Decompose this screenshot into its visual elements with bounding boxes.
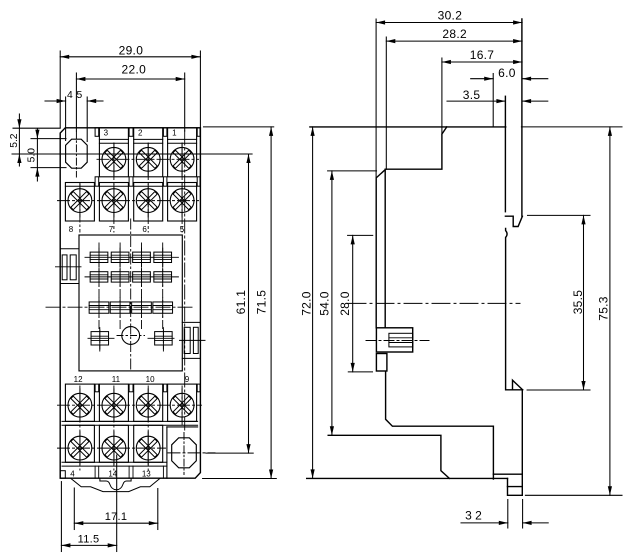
dim 22.0 (76, 63, 184, 81)
svg-text:7: 7 (109, 225, 114, 234)
dim 72.0 (299, 127, 314, 479)
row4 blocks (4,14,13) (65, 425, 94, 462)
relay well inner rectangle (79, 235, 182, 371)
svg-text:28.2: 28.2 (442, 27, 467, 41)
svg-text:17.1: 17.1 (105, 511, 128, 523)
svg-text:4: 4 (70, 470, 75, 479)
base strip gap ticks (94, 466, 96, 478)
contact slot rowB (111, 268, 129, 286)
svg-text:22.0: 22.0 (122, 63, 147, 77)
dim 6.0 (492, 74, 494, 127)
dim 29.0 (60, 43, 200, 59)
bottom shared line (307, 477, 508, 479)
contact slot rowC (89, 298, 109, 317)
dim 11.5 (61, 533, 116, 547)
dim 17.1 (73, 488, 75, 530)
mid centre line (46, 306, 194, 308)
screw terminal 5 (170, 184, 194, 217)
screw terminal 13 (136, 432, 160, 465)
svg-text:13: 13 (142, 470, 151, 479)
screw terminal 2 (136, 143, 160, 176)
contact slot rowA (111, 248, 129, 266)
side view centre line (348, 302, 520, 304)
svg-text:35.5: 35.5 (571, 290, 585, 315)
bottom mounting hole (obround) (172, 438, 197, 468)
dim 5.0 (36, 129, 38, 182)
contact slot rowA (133, 248, 151, 266)
dim 28.2 ext (385, 37, 387, 169)
left corner box (60, 471, 65, 479)
svg-text:6.0: 6.0 (498, 66, 516, 80)
clip hook (505, 216, 522, 226)
screw terminal 9 (170, 389, 194, 422)
dim 17.1 (74, 511, 158, 525)
svg-text:9: 9 (185, 375, 190, 384)
screw terminal 11 (102, 389, 126, 422)
dim 75.3 ext (525, 494, 622, 496)
terminal row 2 blocks (8,7,6,5) (65, 183, 94, 222)
bottom scallop inner notch (100, 478, 131, 490)
dim 4.5 (65, 97, 67, 141)
side screw centre line (366, 340, 429, 342)
dim 3.5 (447, 100, 505, 102)
svg-text:5.2: 5.2 (9, 133, 20, 148)
terminal row3 blocks (12,11,10,9) (65, 384, 94, 421)
dim 5.2 (18, 114, 20, 166)
svg-text:4: 4 (67, 90, 73, 101)
svg-text:5: 5 (77, 90, 83, 101)
dim 71.5 (204, 126, 274, 128)
dim 54.0 ext (328, 170, 377, 172)
dim 71.5 (255, 127, 274, 479)
left latch pocket (60, 248, 79, 250)
slot column centre lines (98, 243, 100, 330)
contact slot rowB (133, 268, 151, 286)
svg-text:3: 3 (104, 128, 109, 137)
svg-text:75.3: 75.3 (597, 296, 611, 321)
contact slot rowD left (91, 328, 109, 349)
small step rect below block (376, 354, 387, 372)
dim 30.2 ext (375, 19, 377, 178)
dim 16.7 (442, 48, 522, 64)
svg-text:11: 11 (112, 375, 121, 384)
svg-text:5.0: 5.0 (27, 148, 38, 163)
svg-text:1: 1 (172, 128, 177, 137)
bottom hole vertical centre line (183, 433, 185, 475)
dim 29.0 extension lines (59, 51, 61, 128)
screw terminal 3 (102, 143, 126, 176)
dim 61.1 (234, 154, 251, 453)
dim 28.0 ext (348, 234, 373, 236)
svg-text:3 2: 3 2 (465, 508, 482, 522)
latch centre line right (180, 339, 206, 341)
svg-text:10: 10 (146, 375, 155, 384)
screw terminal 10 (136, 389, 160, 422)
dim 3.2 (507, 500, 509, 529)
contact slot rowB (154, 268, 172, 286)
screw terminal 14 (102, 432, 126, 465)
dim 22.0 extension lines (75, 73, 77, 131)
contact slot rowC (110, 298, 130, 317)
catch bump (506, 229, 523, 390)
screw column centre lines rows1-2 (79, 183, 81, 232)
gap ribs row3 (95, 384, 99, 392)
contact slot rowD right (155, 328, 173, 349)
screw terminal 12 (68, 389, 92, 422)
svg-text:3.5: 3.5 (463, 88, 481, 102)
svg-text:54.0: 54.0 (318, 291, 332, 316)
dim 54.0 (318, 171, 334, 435)
bottom-right hole area box (166, 427, 168, 478)
right latch pocket (182, 321, 200, 323)
contact slot rowA (154, 248, 172, 266)
step triangle (513, 380, 523, 390)
svg-text:71.5: 71.5 (255, 290, 269, 315)
dim 16.7 ext (441, 58, 443, 134)
contact slot rowB (90, 268, 108, 286)
screw terminal 1 (170, 143, 194, 176)
terminal row 1 blocks (3,2,1) (99, 128, 128, 177)
svg-text:8: 8 (69, 225, 74, 234)
svg-text:30.2: 30.2 (438, 8, 463, 22)
screw terminal 6 (136, 184, 160, 217)
contact slot rowC (132, 298, 152, 317)
front top face + ext (521, 19, 523, 216)
long reference line through top hole centre (12, 153, 252, 155)
dim 35.5 (571, 215, 586, 390)
dim 61.1 (206, 452, 253, 454)
centre circle (122, 327, 140, 345)
slot left wall + 3.5 ext (504, 96, 506, 211)
contact slot rowA (90, 248, 108, 266)
svg-text:2: 2 (138, 128, 143, 137)
svg-text:72.0: 72.0 (299, 291, 313, 316)
svg-text:12: 12 (74, 375, 83, 384)
bottom hole horizontal centre line (168, 452, 215, 454)
svg-text:29.0: 29.0 (119, 43, 144, 57)
svg-text:61.1: 61.1 (234, 290, 248, 315)
dim 11.5 (60, 482, 62, 552)
dim 28.2 (386, 27, 522, 43)
side screw block (376, 328, 412, 352)
screw terminal 4 (68, 432, 92, 465)
top hole vertical centre line (75, 132, 77, 178)
bottom scallop outer (71, 478, 161, 491)
dim 30.2 (376, 8, 522, 24)
dim 75.3 (597, 127, 612, 495)
latch centre line (56, 266, 82, 268)
dim 28.0 (338, 235, 355, 372)
dim 35.5 ext (528, 214, 591, 216)
lower left profile (386, 371, 494, 479)
slot row centre lines (85, 256, 178, 258)
svg-text:11.5: 11.5 (78, 533, 100, 545)
top edge (310, 126, 506, 128)
inner wall line (384, 169, 386, 328)
gap ribs top (95, 128, 99, 137)
DIN foot (493, 473, 522, 475)
screw row centre lines (97, 158, 199, 160)
svg-text:6: 6 (142, 225, 147, 234)
svg-text:28.0: 28.0 (338, 291, 352, 316)
screw terminal 8 (68, 184, 92, 217)
contact slot rowC (153, 298, 173, 317)
screw terminal 7 (102, 184, 126, 217)
top mounting hole (obround) (66, 139, 88, 168)
screw column centre lines rows3-4 (79, 386, 81, 470)
front lower face (521, 390, 523, 496)
top-left step (376, 127, 447, 328)
socket body outline (60, 128, 200, 478)
svg-text:16.7: 16.7 (470, 48, 495, 62)
front view vertical centre line (130, 219, 132, 370)
